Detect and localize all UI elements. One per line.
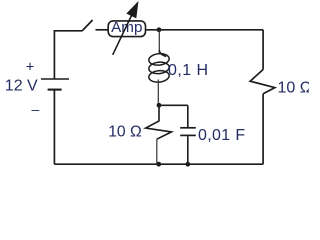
node junction dot bottom of capacitor — [185, 162, 190, 167]
wire bottom horizontal — [54, 163, 263, 165]
svg-text:0,1 H: 0,1 H — [168, 62, 209, 79]
resistor R2 10 ohm (right branch zigzag) — [250, 70, 275, 94]
wire capacitor branch vertical lower — [187, 136, 189, 164]
wire left vertical upper — [53, 30, 55, 79]
ammeter U1 Amp box — [108, 21, 145, 37]
wire resistor to bottom — [156, 139, 158, 164]
svg-text:10 Ω: 10 Ω — [108, 124, 142, 141]
svg-text:–: – — [32, 101, 40, 117]
node junction dot middle — [157, 103, 162, 108]
wire capacitor branch vertical upper — [187, 105, 189, 127]
wire middle branch upper (dot to coil) — [158, 30, 160, 54]
switch S (open blade) — [82, 20, 93, 31]
wire top-right horizontal — [146, 29, 263, 31]
svg-text:10 Ω: 10 Ω — [278, 80, 310, 97]
ammeter adjustment arrowhead — [127, 2, 138, 17]
wire right vertical upper — [262, 30, 264, 70]
wire top-left horizontal — [54, 30, 82, 32]
capacitor C1 plates — [180, 128, 196, 136]
inductor L1 0,1 H coil — [148, 50, 169, 83]
wire middle branch (coil to junction) — [157, 80, 159, 106]
resistor R1 10 ohm (middle zigzag) — [146, 105, 172, 139]
svg-text:+: + — [26, 59, 35, 76]
wire lead to ammeter — [96, 29, 109, 31]
wire capacitor branch top horizontal — [159, 104, 188, 106]
svg-text:Amp: Amp — [111, 19, 142, 36]
wire right vertical lower — [262, 94, 264, 164]
node junction dot bottom of resistor — [156, 162, 161, 167]
ammeter adjustment arrow shaft — [113, 14, 133, 55]
svg-text:12 V: 12 V — [5, 78, 38, 95]
node junction dot top of middle branch — [157, 27, 162, 32]
battery B1 12 V plates — [41, 79, 69, 90]
wire left vertical lower — [53, 90, 55, 165]
svg-text:0,01 F: 0,01 F — [198, 127, 245, 144]
